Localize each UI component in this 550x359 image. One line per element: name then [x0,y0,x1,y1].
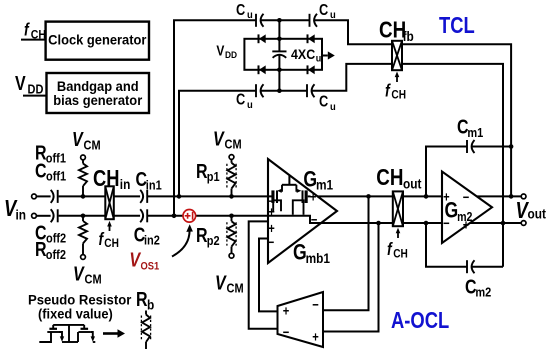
svg-text:−: − [463,190,470,205]
svg-text:C: C [35,160,47,182]
svg-text:V: V [215,272,227,294]
svg-text:in1: in1 [146,179,162,193]
svg-text:CM: CM [84,139,101,153]
svg-text:DD: DD [225,50,238,61]
svg-text:in2: in2 [144,234,160,248]
svg-text:C: C [236,91,246,109]
svg-text:in: in [120,176,131,192]
svg-text:CH: CH [393,248,408,261]
svg-text:TCL: TCL [439,13,475,38]
svg-text:p1: p1 [207,171,220,185]
svg-text:−: − [312,297,319,312]
svg-text:CH: CH [376,164,403,191]
svg-text:V: V [216,42,224,59]
svg-text:A-OCL: A-OCL [391,308,449,333]
svg-text:C: C [319,2,329,20]
svg-text:mb1: mb1 [306,250,330,266]
svg-text:−: − [311,212,318,227]
svg-text:V: V [15,72,26,94]
svg-text:in: in [16,207,27,223]
svg-text:Clock generator: Clock generator [48,32,146,47]
svg-text:u: u [316,53,322,65]
svg-text:CM: CM [85,273,102,287]
svg-text:V: V [72,129,84,151]
svg-text:CH: CH [93,166,119,192]
svg-text:CH: CH [31,29,46,42]
svg-text:C: C [236,2,246,20]
svg-text:+: + [312,329,319,344]
svg-text:off1: off1 [46,152,67,166]
svg-text:m1: m1 [467,126,483,140]
svg-text:m1: m1 [316,177,333,193]
svg-text:R: R [136,288,148,310]
svg-text:OS1: OS1 [141,261,160,273]
svg-text:−: − [268,235,275,250]
svg-text:fb: fb [403,28,414,44]
svg-text:u: u [247,10,253,22]
svg-text:out: out [403,176,422,192]
svg-text:R: R [35,238,47,260]
svg-text:bias generator: bias generator [53,92,142,107]
svg-text:G: G [293,241,307,265]
svg-text:u: u [247,100,253,112]
svg-text:off2: off2 [46,232,67,246]
svg-text:p2: p2 [207,235,220,249]
svg-text:off1: off1 [46,170,67,184]
svg-text:G: G [303,168,317,192]
svg-text:(fixed value): (fixed value) [38,306,113,321]
svg-text:DD: DD [28,83,44,97]
svg-text:out: out [528,206,547,222]
svg-text:C: C [319,93,329,111]
svg-text:4XC: 4XC [291,46,316,62]
svg-text:m2: m2 [475,286,491,300]
svg-text:CH: CH [104,237,119,250]
svg-text:G: G [445,199,459,223]
svg-text:off2: off2 [46,248,67,262]
svg-text:CH: CH [391,89,406,102]
svg-text:u: u [330,101,336,113]
svg-text:R: R [196,224,208,246]
svg-text:m2: m2 [457,210,472,224]
svg-text:CM: CM [227,282,244,296]
svg-text:+: + [268,204,275,219]
svg-text:V: V [73,263,85,285]
svg-text:b: b [147,297,154,313]
svg-text:CM: CM [225,138,242,152]
svg-text:u: u [330,10,336,22]
svg-text:R: R [196,160,208,182]
svg-text:−: − [283,325,290,340]
svg-text:Pseudo Resistor: Pseudo Resistor [28,292,132,307]
svg-text:V: V [213,128,225,150]
svg-text:+: + [283,303,290,318]
